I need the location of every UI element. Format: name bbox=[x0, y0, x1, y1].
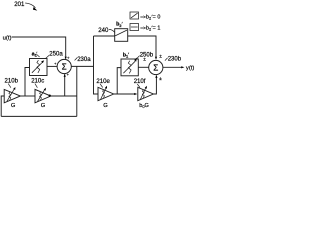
svg-text:210e: 210e bbox=[96, 79, 110, 85]
svg-text:Σ: Σ bbox=[62, 62, 67, 71]
legend text line 1 bbox=[140, 14, 160, 20]
wire feedback drop at x=76.8 bbox=[76, 66, 78, 116]
svg-text:±: ± bbox=[159, 76, 162, 82]
gain label G of 210c bbox=[41, 103, 46, 109]
svg-text:u(t): u(t) bbox=[3, 35, 12, 41]
wire tap riser into 250b bbox=[117, 68, 121, 94]
switch arm in 240 bbox=[115, 30, 127, 36]
wire 240 to 230b top bbox=[128, 36, 156, 57]
wire 210f to 230b bottom bbox=[153, 76, 156, 94]
leader a1' bbox=[37, 54, 40, 57]
zigzag in 250a bbox=[37, 60, 40, 73]
label 250a bbox=[49, 52, 63, 58]
svg-text:±: ± bbox=[159, 53, 162, 59]
output label y(t) bbox=[186, 66, 195, 72]
svg-text:b0G: b0G bbox=[139, 103, 149, 109]
gain label b0G of 210f bbox=[139, 103, 149, 109]
wire 210e to 210f with arrow bbox=[114, 93, 135, 95]
plus sign at 230a top input bbox=[67, 55, 70, 60]
svg-text:250a: 250a bbox=[49, 52, 63, 58]
leader 250b bbox=[137, 56, 140, 59]
wire riser into 230a bottom bbox=[64, 74, 66, 96]
variable arrow through 210f bbox=[140, 88, 146, 100]
svg-text:210b: 210b bbox=[5, 79, 19, 85]
leader 210c bbox=[35, 84, 38, 88]
leader 210b bbox=[8, 84, 11, 88]
squiggle leader 240 bbox=[109, 30, 115, 33]
svg-text:201: 201 bbox=[14, 2, 25, 8]
variable arrow through 210b bbox=[7, 89, 15, 102]
node label 201 bbox=[14, 2, 25, 8]
wire u(t) to summer 230a top bbox=[12, 37, 66, 57]
zigzag in 250b bbox=[128, 61, 131, 74]
plusminus at 230b top input bbox=[159, 53, 162, 59]
wire 230a output bbox=[71, 65, 93, 67]
label 210e bbox=[96, 79, 110, 85]
amplifier 210c bbox=[35, 89, 51, 102]
input label u(t) bbox=[3, 35, 12, 41]
leader arrow for 201 bbox=[25, 3, 35, 8]
gain label G of 210b bbox=[11, 103, 16, 109]
amplifier 210b bbox=[4, 89, 20, 102]
svg-text:+: + bbox=[67, 73, 69, 77]
legend text line 2 bbox=[140, 25, 160, 31]
wire stage2 main riser bbox=[94, 36, 99, 94]
plusminus at 230b bottom input bbox=[159, 76, 162, 82]
svg-text:b2 = 0: b2 = 0 bbox=[146, 15, 160, 21]
variable arrow in 250b bbox=[123, 61, 135, 73]
svg-text:+: + bbox=[54, 62, 56, 66]
leader 210e bbox=[100, 84, 103, 88]
svg-text:G: G bbox=[41, 103, 46, 109]
svg-text:b2: b2 bbox=[116, 22, 122, 28]
label a1' bbox=[32, 52, 38, 58]
label b2' above switch bbox=[116, 22, 122, 28]
label b1' bbox=[123, 52, 129, 58]
wire 230b output to y(t) bbox=[163, 66, 182, 68]
amplifier 210e bbox=[98, 87, 114, 100]
wire bottom feedback run bbox=[1, 115, 77, 117]
plusminus at 230b left input bbox=[143, 56, 146, 62]
svg-text:y(t): y(t) bbox=[186, 66, 195, 72]
svg-text:b1: b1 bbox=[123, 52, 129, 58]
gain label G of 210e bbox=[103, 103, 108, 109]
legend box open switch bbox=[130, 12, 139, 19]
label 210f bbox=[134, 79, 146, 85]
wire tap riser into 250a bbox=[25, 68, 30, 97]
variable arrow in 250a bbox=[32, 62, 43, 73]
variable arrow through 210c bbox=[38, 89, 45, 101]
variable arrow through 210e bbox=[101, 88, 107, 100]
leader 250a bbox=[45, 55, 49, 59]
summing junction 230b bbox=[149, 60, 163, 74]
coefficient box 250b bbox=[121, 59, 138, 76]
label 230b bbox=[165, 58, 168, 61]
wire 210b to 210c bbox=[20, 95, 35, 97]
svg-text:210f: 210f bbox=[134, 79, 146, 85]
label 240 bbox=[98, 28, 109, 34]
legend box closed switch bbox=[130, 24, 139, 31]
label 210b bbox=[5, 79, 19, 85]
svg-text:G: G bbox=[103, 103, 108, 109]
svg-text:250b: 250b bbox=[140, 52, 154, 58]
wire 250a to 230a bbox=[47, 65, 57, 67]
zigzag in 210b bbox=[9, 92, 11, 100]
svg-text:230b: 230b bbox=[168, 56, 182, 62]
zigzag in 210c bbox=[40, 92, 42, 100]
zigzag in 210e bbox=[103, 90, 105, 98]
zigzag in 210f bbox=[142, 90, 144, 98]
leader 210f bbox=[137, 84, 140, 88]
svg-text:b2 = 1: b2 = 1 bbox=[146, 25, 160, 31]
svg-text:240: 240 bbox=[98, 28, 109, 34]
wire 250b to 230b bbox=[138, 66, 148, 68]
tiny plus at 230a bottom input bbox=[67, 73, 69, 77]
svg-text:230a: 230a bbox=[77, 57, 91, 63]
svg-text:±: ± bbox=[143, 56, 146, 62]
label 250b bbox=[140, 52, 154, 58]
wire top path to switch 240 bbox=[94, 35, 115, 37]
amplifier 210f bbox=[138, 87, 154, 100]
junction dot at 210c output bbox=[49, 94, 51, 96]
svg-text:G: G bbox=[11, 103, 16, 109]
coefficient box 250a bbox=[30, 59, 48, 76]
switch box 240 bbox=[115, 29, 128, 42]
label 210c bbox=[31, 79, 44, 85]
summing junction 230a bbox=[57, 59, 71, 73]
legend horizontal line bbox=[131, 26, 138, 28]
tiny plus at 230a left input bbox=[54, 62, 56, 66]
svg-text:Σ: Σ bbox=[153, 63, 158, 72]
legend diagonal bbox=[131, 13, 138, 18]
label 230a bbox=[75, 58, 78, 61]
wire 210c output run bbox=[51, 95, 77, 97]
wire feedback riser to 210b bbox=[1, 96, 4, 116]
svg-text:210c: 210c bbox=[31, 79, 44, 85]
